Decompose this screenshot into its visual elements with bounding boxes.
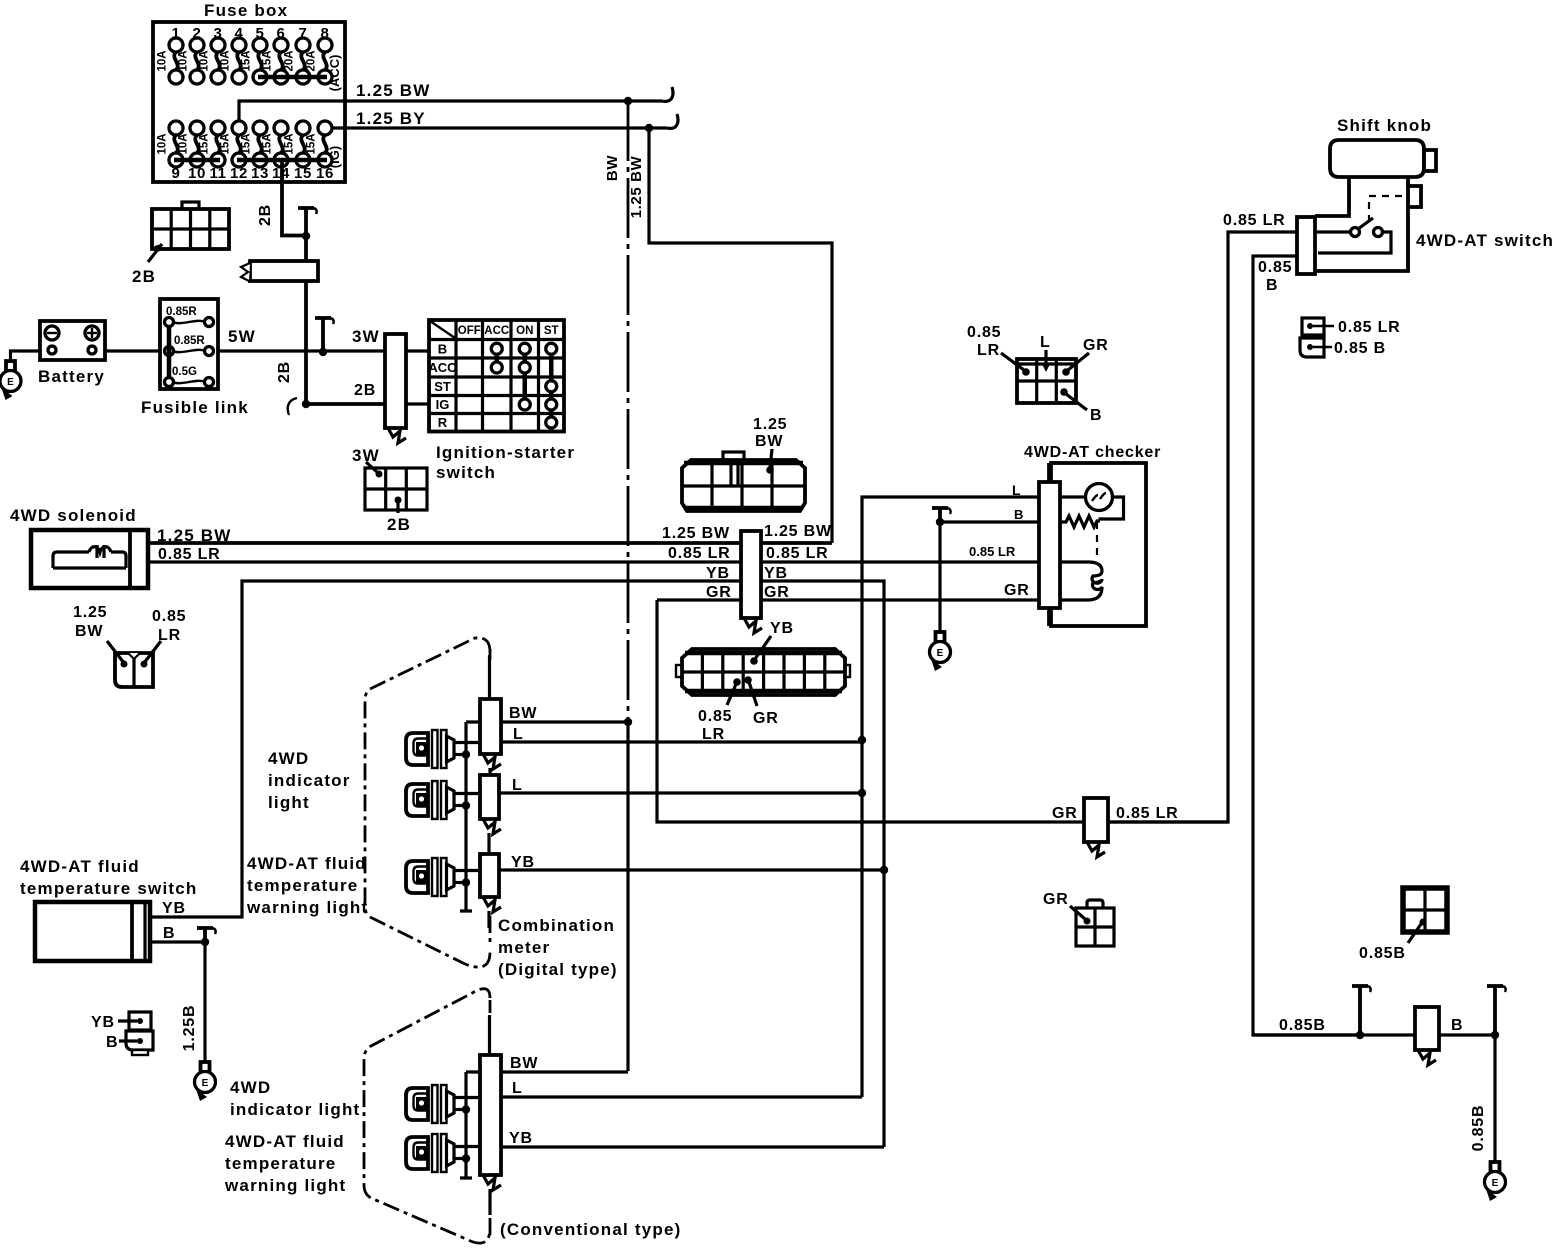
svg-text:0.85: 0.85 xyxy=(152,608,186,625)
svg-text:(ACC): (ACC) xyxy=(327,55,342,92)
svg-text:BW: BW xyxy=(604,155,621,181)
svg-text:0.85 LR: 0.85 LR xyxy=(969,544,1016,559)
svg-text:B: B xyxy=(1266,277,1278,294)
svg-text:YB: YB xyxy=(764,565,788,582)
svg-text:15A: 15A xyxy=(306,133,318,154)
svg-text:indicator light: indicator light xyxy=(230,1100,360,1119)
svg-text:15A: 15A xyxy=(284,133,296,154)
svg-text:temperature: temperature xyxy=(225,1154,336,1173)
svg-text:1.25: 1.25 xyxy=(73,604,107,621)
svg-text:2B: 2B xyxy=(132,267,156,286)
svg-text:10A: 10A xyxy=(178,133,190,154)
svg-text:Shift knob: Shift knob xyxy=(1337,116,1432,135)
svg-text:BW: BW xyxy=(75,623,103,640)
svg-text:(Digital type): (Digital type) xyxy=(498,960,618,979)
svg-text:10A: 10A xyxy=(157,133,169,154)
svg-text:2B: 2B xyxy=(257,204,274,226)
svg-text:B: B xyxy=(163,925,175,942)
svg-text:4WD-AT checker: 4WD-AT checker xyxy=(1024,444,1161,461)
svg-text:IG: IG xyxy=(436,397,450,412)
svg-text:R: R xyxy=(438,415,448,430)
svg-text:4WD-AT fluid: 4WD-AT fluid xyxy=(247,854,367,873)
svg-text:meter: meter xyxy=(498,938,550,957)
svg-text:0.85: 0.85 xyxy=(1258,259,1292,276)
svg-text:1.25B: 1.25B xyxy=(181,1005,198,1052)
svg-text:0.85B: 0.85B xyxy=(1279,1017,1326,1034)
svg-text:0.85 B: 0.85 B xyxy=(1334,340,1386,357)
svg-text:0.85 LR: 0.85 LR xyxy=(1223,212,1286,229)
svg-text:0.85 LR: 0.85 LR xyxy=(1338,319,1401,336)
svg-text:15A: 15A xyxy=(262,133,274,154)
svg-text:BW: BW xyxy=(509,705,537,722)
svg-text:5W: 5W xyxy=(228,327,256,346)
svg-text:ACC: ACC xyxy=(484,325,509,337)
svg-text:warning light: warning light xyxy=(224,1176,346,1195)
svg-text:4WD: 4WD xyxy=(230,1078,271,1097)
svg-text:0.85: 0.85 xyxy=(698,708,732,725)
svg-text:15A: 15A xyxy=(241,133,253,154)
svg-text:3W: 3W xyxy=(352,327,380,346)
svg-text:4WD-AT fluid: 4WD-AT fluid xyxy=(20,857,140,876)
svg-text:0.85: 0.85 xyxy=(967,324,1001,341)
svg-text:10A: 10A xyxy=(157,50,169,71)
svg-text:E: E xyxy=(202,1078,209,1089)
svg-text:Combination: Combination xyxy=(498,916,615,935)
svg-text:B: B xyxy=(1014,507,1023,522)
svg-text:YB: YB xyxy=(509,1130,533,1147)
svg-text:GR: GR xyxy=(753,710,779,727)
svg-text:L: L xyxy=(1040,334,1051,351)
svg-text:ST: ST xyxy=(434,379,451,394)
svg-text:4WD-AT fluid: 4WD-AT fluid xyxy=(225,1132,345,1151)
svg-text:warning light: warning light xyxy=(246,898,368,917)
svg-text:B: B xyxy=(106,1034,118,1051)
svg-text:YB: YB xyxy=(511,854,535,871)
svg-text:15A: 15A xyxy=(262,50,274,71)
svg-text:LR: LR xyxy=(158,627,181,644)
svg-text:ACC: ACC xyxy=(428,360,457,375)
svg-text:E: E xyxy=(937,648,944,659)
svg-text:0.5G: 0.5G xyxy=(172,366,197,378)
svg-text:GR: GR xyxy=(1043,891,1069,908)
svg-text:YB: YB xyxy=(706,565,730,582)
svg-text:E: E xyxy=(7,377,14,388)
svg-text:Fusible link: Fusible link xyxy=(141,398,249,417)
svg-text:1.25 BW: 1.25 BW xyxy=(356,81,431,100)
svg-text:4WD-AT switch: 4WD-AT switch xyxy=(1416,231,1554,250)
svg-text:15A: 15A xyxy=(220,133,232,154)
svg-text:Ignition-starter: Ignition-starter xyxy=(436,443,575,462)
svg-text:4WD: 4WD xyxy=(268,749,309,768)
svg-text:20A: 20A xyxy=(306,50,318,71)
svg-text:(IG): (IG) xyxy=(327,146,342,168)
svg-text:2B: 2B xyxy=(387,515,411,534)
svg-text:BW: BW xyxy=(510,1055,538,1072)
svg-text:GR: GR xyxy=(764,584,790,601)
svg-text:Fuse box: Fuse box xyxy=(204,1,288,20)
svg-text:20A: 20A xyxy=(284,50,296,71)
svg-text:YB: YB xyxy=(770,620,794,637)
svg-text:B: B xyxy=(1451,1017,1463,1034)
svg-text:GR: GR xyxy=(706,584,732,601)
svg-text:10A: 10A xyxy=(199,50,211,71)
svg-text:BW: BW xyxy=(755,433,783,450)
svg-text:GR: GR xyxy=(1004,582,1030,599)
svg-text:light: light xyxy=(268,793,310,812)
svg-text:temperature: temperature xyxy=(247,876,358,895)
svg-text:GR: GR xyxy=(1052,805,1078,822)
svg-text:0.85 LR: 0.85 LR xyxy=(668,545,731,562)
svg-text:0.85 LR: 0.85 LR xyxy=(1116,805,1179,822)
svg-text:1.25 BW: 1.25 BW xyxy=(662,525,730,542)
svg-text:YB: YB xyxy=(162,900,186,917)
svg-text:0.85B: 0.85B xyxy=(1470,1105,1487,1152)
svg-text:2B: 2B xyxy=(276,361,293,383)
svg-text:4WD solenoid: 4WD solenoid xyxy=(10,506,137,525)
svg-text:10A: 10A xyxy=(220,50,232,71)
svg-text:2B: 2B xyxy=(354,382,376,399)
svg-text:0.85 LR: 0.85 LR xyxy=(766,545,829,562)
svg-text:LR: LR xyxy=(977,342,1000,359)
svg-text:OFF: OFF xyxy=(458,325,481,337)
svg-text:1.25 BW: 1.25 BW xyxy=(764,523,832,540)
svg-text:1.25 BW: 1.25 BW xyxy=(157,526,232,545)
svg-text:B: B xyxy=(438,341,447,356)
svg-text:L: L xyxy=(513,726,524,743)
svg-text:15A: 15A xyxy=(241,50,253,71)
svg-text:1.25: 1.25 xyxy=(753,416,787,433)
svg-text:1.25 BY: 1.25 BY xyxy=(356,109,426,128)
svg-text:temperature switch: temperature switch xyxy=(20,879,197,898)
svg-text:L: L xyxy=(512,1080,523,1097)
svg-text:L: L xyxy=(512,777,523,794)
svg-text:indicator: indicator xyxy=(268,771,351,790)
svg-text:YB: YB xyxy=(91,1014,115,1031)
svg-text:switch: switch xyxy=(436,463,496,482)
svg-text:10A: 10A xyxy=(178,50,190,71)
svg-text:GR: GR xyxy=(1083,337,1109,354)
svg-text:ON: ON xyxy=(516,325,533,337)
svg-text:L: L xyxy=(1012,482,1021,498)
svg-text:1.25 BW: 1.25 BW xyxy=(628,155,645,218)
svg-text:E: E xyxy=(1492,1178,1499,1189)
svg-text:(Conventional type): (Conventional type) xyxy=(500,1220,681,1239)
svg-text:B: B xyxy=(1090,407,1102,424)
svg-text:15A: 15A xyxy=(199,133,211,154)
svg-text:ST: ST xyxy=(544,325,559,337)
svg-text:0.85 LR: 0.85 LR xyxy=(158,546,221,563)
svg-text:0.85B: 0.85B xyxy=(1359,945,1406,962)
svg-text:Battery: Battery xyxy=(38,367,105,386)
svg-text:0.85R: 0.85R xyxy=(174,335,205,347)
